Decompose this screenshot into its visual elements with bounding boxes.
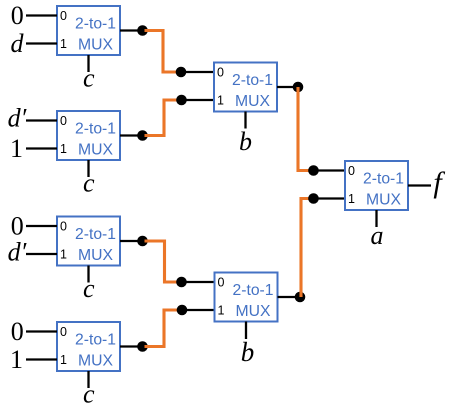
svg-text:c: c	[83, 274, 95, 303]
wire U6 input 0	[182, 281, 215, 283]
mux U5 (2-to-1 MUX level 2 top, select b)	[214, 63, 277, 112]
svg-text:MUX: MUX	[78, 142, 113, 159]
wire U4 output	[120, 345, 143, 347]
wire orange U2.out to U5.in1	[145, 100, 180, 136]
node U5 output junction	[293, 82, 304, 93]
svg-text:0: 0	[11, 212, 24, 241]
wire U7 input 0	[314, 169, 346, 171]
node U7 input1 junction	[308, 193, 319, 204]
mux U2 (2-to-1 MUX, inputs d~/1, select c)	[57, 111, 120, 160]
wire U6 select	[245, 322, 247, 340]
wire U5 input 1	[182, 99, 215, 101]
wire orange U1.out to U5.in0	[145, 31, 180, 73]
svg-text:0: 0	[60, 114, 67, 128]
mux U7 (2-to-1 MUX output stage, select a)	[345, 161, 408, 210]
mux U6 (2-to-1 MUX level 2 bottom, select b)	[215, 273, 278, 322]
wire U1 input 0	[26, 14, 57, 16]
mux U4 (2-to-1 MUX, inputs 0/1, select c)	[57, 322, 120, 371]
node U6 input0 junction	[176, 277, 187, 288]
svg-text:b: b	[239, 127, 252, 156]
svg-text:1: 1	[218, 304, 225, 318]
wire U2 output	[120, 134, 143, 136]
svg-text:MUX: MUX	[235, 93, 270, 110]
node U2 output junction	[137, 130, 148, 141]
svg-text:MUX: MUX	[78, 37, 113, 54]
mux U1 (2-to-1 MUX, inputs 0/d, select c)	[57, 6, 120, 55]
wire U7 select	[375, 210, 377, 227]
wire U2 input 1	[26, 147, 57, 149]
wire U1 select	[87, 55, 89, 72]
svg-text:c: c	[83, 64, 95, 93]
wire orange U5.out to U7.in0	[298, 87, 311, 171]
svg-text:MUX: MUX	[78, 353, 113, 370]
svg-text:1: 1	[60, 37, 67, 51]
node U6 input1 junction	[177, 305, 188, 316]
svg-text:MUX: MUX	[366, 192, 401, 209]
svg-text:1: 1	[60, 248, 67, 262]
wire U3 output	[120, 240, 143, 242]
svg-text:d′: d′	[8, 238, 27, 267]
svg-text:0: 0	[11, 1, 24, 30]
wire U5 select	[244, 112, 246, 129]
node U5 input0 junction	[176, 67, 187, 78]
svg-text:0: 0	[348, 164, 355, 178]
svg-text:MUX: MUX	[78, 247, 113, 264]
node U5 input1 junction	[176, 95, 187, 106]
wire U4 input 1	[26, 358, 57, 360]
svg-text:2-to-1: 2-to-1	[75, 226, 116, 243]
node U4 output junction	[137, 341, 148, 352]
wire orange U6.out to U7.in1	[301, 199, 311, 298]
wire U7 output f	[408, 184, 431, 186]
wire U6 output	[278, 296, 301, 298]
wire U4 select	[87, 371, 89, 388]
svg-text:b: b	[241, 337, 255, 367]
svg-text:1: 1	[217, 94, 224, 108]
wire U1 output	[120, 29, 143, 31]
svg-text:a: a	[371, 221, 384, 250]
wire U2 select	[87, 160, 89, 177]
svg-text:0: 0	[218, 276, 225, 290]
svg-text:1: 1	[10, 134, 23, 163]
svg-text:1: 1	[60, 142, 67, 156]
node U3 output junction	[137, 236, 148, 247]
wire U7 input 1	[314, 197, 346, 199]
svg-text:c: c	[83, 380, 95, 409]
wire U3 input 1	[26, 253, 57, 255]
svg-text:2-to-1: 2-to-1	[232, 72, 273, 89]
svg-text:1: 1	[348, 192, 355, 206]
wire U3 select	[87, 266, 89, 283]
mux U3 (2-to-1 MUX, inputs 0/d~, select c)	[57, 217, 120, 266]
svg-text:2-to-1: 2-to-1	[75, 16, 116, 33]
wire U5 output	[277, 86, 298, 88]
svg-text:c: c	[83, 169, 95, 198]
svg-text:d: d	[11, 29, 25, 58]
svg-text:2-to-1: 2-to-1	[233, 282, 274, 299]
wire U6 input 1	[182, 309, 215, 311]
svg-text:2-to-1: 2-to-1	[75, 121, 116, 138]
wire U4 input 0	[26, 330, 57, 332]
svg-text:d′: d′	[8, 103, 27, 132]
wire U1 input 1	[26, 42, 57, 44]
node U6 output junction	[295, 292, 306, 303]
svg-text:1: 1	[60, 353, 67, 367]
svg-text:0: 0	[217, 66, 224, 80]
wire orange U3.out to U6.in0	[145, 241, 180, 282]
node U7 input0 junction	[308, 165, 319, 176]
svg-text:2-to-1: 2-to-1	[75, 332, 116, 349]
svg-text:0: 0	[60, 9, 67, 23]
wire U3 input 0	[26, 225, 57, 227]
node U1 output junction	[137, 25, 148, 36]
wire U2 input 0	[26, 119, 57, 121]
wire U5 input 0	[181, 71, 214, 73]
wire orange U4.out to U6.in1	[145, 310, 180, 347]
svg-text:0: 0	[60, 220, 67, 234]
svg-text:0: 0	[60, 325, 67, 339]
svg-text:2-to-1: 2-to-1	[363, 171, 404, 188]
svg-text:0: 0	[11, 317, 24, 346]
svg-text:MUX: MUX	[236, 303, 271, 320]
svg-text:1: 1	[10, 345, 23, 374]
